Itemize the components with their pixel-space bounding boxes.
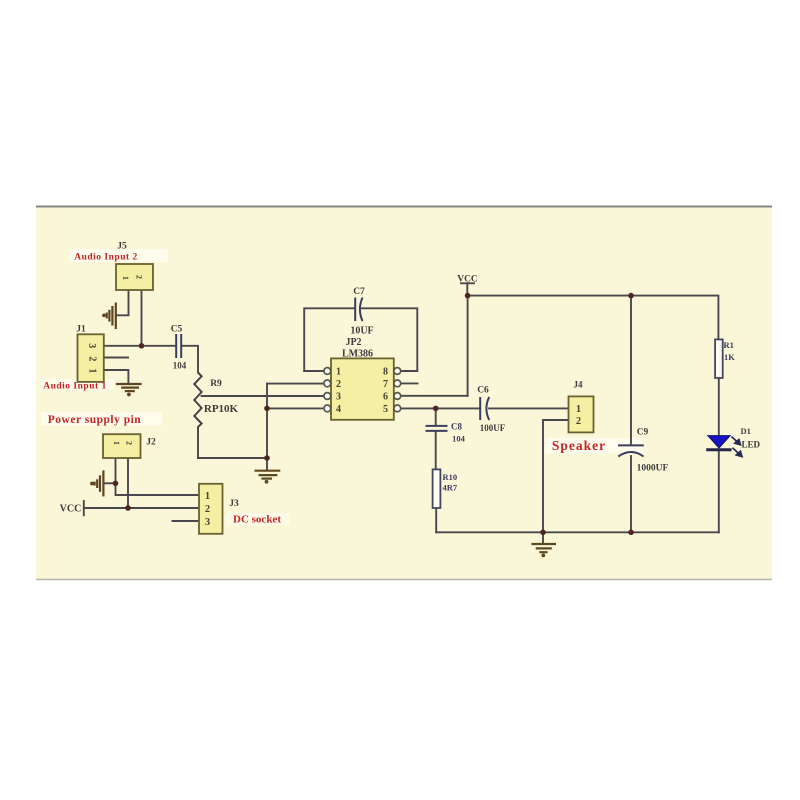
svg-text:C5: C5 bbox=[171, 325, 183, 335]
svg-text:VCC: VCC bbox=[457, 275, 478, 285]
svg-text:C8: C8 bbox=[451, 422, 462, 432]
svg-text:1000UF: 1000UF bbox=[637, 464, 669, 474]
svg-text:Audio Input 2: Audio Input 2 bbox=[74, 253, 138, 263]
svg-text:2: 2 bbox=[135, 275, 144, 279]
svg-text:104: 104 bbox=[452, 433, 466, 443]
svg-text:R10: R10 bbox=[443, 472, 458, 482]
svg-text:J4: J4 bbox=[574, 380, 584, 390]
svg-text:D1: D1 bbox=[741, 426, 751, 436]
svg-text:LM386: LM386 bbox=[342, 348, 373, 359]
svg-text:C9: C9 bbox=[637, 428, 649, 438]
svg-text:3: 3 bbox=[205, 517, 210, 528]
svg-text:RP10K: RP10K bbox=[204, 403, 239, 415]
svg-text:3: 3 bbox=[336, 392, 341, 403]
svg-text:R1: R1 bbox=[724, 340, 734, 350]
svg-text:6: 6 bbox=[383, 392, 388, 403]
svg-text:VCC: VCC bbox=[60, 504, 82, 515]
svg-text:2: 2 bbox=[86, 356, 97, 361]
svg-text:J3: J3 bbox=[229, 499, 239, 509]
svg-text:Power supply pin: Power supply pin bbox=[48, 414, 142, 426]
svg-text:4R7: 4R7 bbox=[443, 482, 458, 492]
svg-text:JP2: JP2 bbox=[345, 337, 361, 348]
svg-text:4: 4 bbox=[336, 404, 341, 415]
svg-text:2: 2 bbox=[336, 379, 341, 390]
svg-text:1: 1 bbox=[336, 367, 341, 378]
svg-text:2: 2 bbox=[125, 441, 134, 445]
svg-text:1K: 1K bbox=[724, 352, 735, 362]
svg-text:Audio Input 1: Audio Input 1 bbox=[43, 382, 107, 392]
svg-text:1: 1 bbox=[112, 441, 121, 445]
svg-text:7: 7 bbox=[383, 379, 388, 390]
svg-text:J1: J1 bbox=[76, 325, 86, 335]
svg-text:1: 1 bbox=[576, 404, 581, 415]
svg-text:1: 1 bbox=[205, 491, 210, 502]
svg-text:DC socket: DC socket bbox=[233, 514, 281, 526]
svg-text:10UF: 10UF bbox=[350, 326, 373, 337]
svg-text:J5: J5 bbox=[117, 242, 127, 252]
svg-text:J2: J2 bbox=[146, 438, 156, 448]
svg-text:100UF: 100UF bbox=[480, 423, 506, 433]
svg-text:C7: C7 bbox=[353, 287, 365, 297]
svg-text:LED: LED bbox=[742, 440, 761, 450]
svg-text:C6: C6 bbox=[477, 386, 489, 396]
svg-text:3: 3 bbox=[86, 343, 97, 348]
svg-text:1: 1 bbox=[121, 276, 130, 280]
svg-text:5: 5 bbox=[383, 404, 388, 415]
svg-text:2: 2 bbox=[576, 416, 581, 427]
svg-text:8: 8 bbox=[383, 367, 388, 378]
svg-text:2: 2 bbox=[205, 504, 210, 515]
svg-text:104: 104 bbox=[173, 361, 187, 371]
svg-text:R9: R9 bbox=[210, 379, 222, 389]
svg-text:1: 1 bbox=[86, 368, 97, 373]
svg-text:Speaker: Speaker bbox=[552, 438, 606, 453]
